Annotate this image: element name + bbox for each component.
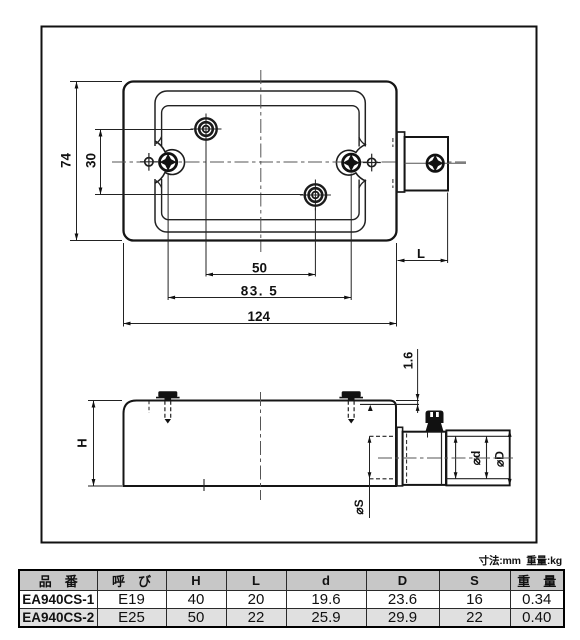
boss 1 (upper left threaded boss) [191, 114, 222, 145]
box body (side view) [124, 401, 397, 487]
svg-text:H: H [75, 438, 90, 447]
inner gasket outline (top view) [162, 106, 360, 220]
hidden tab line left (side view) [148, 401, 150, 413]
lid screw right (side view) [339, 391, 363, 423]
dimension 50 (boss spacing, horizontal) [206, 142, 315, 277]
dimension 74 (overall height, left) [59, 82, 123, 241]
horizontal centerline (top view) [112, 161, 466, 163]
svg-text:50: 50 [252, 260, 267, 275]
svg-text:⌀S: ⌀S [352, 499, 366, 514]
sleeve bore lines [446, 436, 509, 478]
connector main cylinder (side view) [403, 431, 447, 485]
dimension D (sleeve OD) arrows on right edge [493, 430, 512, 485]
lid bottom edge line (side view) [360, 404, 419, 411]
connector flange (side view) [397, 427, 403, 486]
dimension d (bore dia) [469, 436, 488, 478]
dimension 83.5 (side screw spacing) [168, 173, 351, 300]
units note [479, 553, 562, 568]
dimension S (hole dia) [352, 436, 371, 518]
vertical centerline (side view) [260, 392, 262, 500]
right notch scallop around side screw [336, 137, 367, 188]
dimension L (connector length) [398, 193, 448, 264]
box outer body (top view) [124, 82, 397, 241]
right side screw (phillips) [343, 154, 360, 171]
hidden hole rectangle (dashed, box wall) [370, 436, 398, 479]
dimension H (box height) [75, 401, 123, 487]
left notch scallop around side screw [153, 137, 185, 188]
dimension 1.6 (lid thickness) [396, 349, 420, 413]
connector screw (phillips, top view) [405, 155, 466, 171]
connector hidden edge dashes (top view) [392, 138, 394, 188]
svg-text:124: 124 [248, 309, 271, 324]
horizontal centerline (connector, side view) [378, 457, 513, 459]
vertical centerline (top view) [260, 70, 262, 252]
gland bolt on cylinder (side view) [426, 411, 444, 432]
svg-text:30: 30 [84, 153, 99, 168]
interior hidden tick (side view bottom) [203, 479, 205, 491]
svg-text:⌀D: ⌀D [493, 451, 507, 467]
sleeve inner step line with arrows [454, 436, 458, 478]
spec table [18, 569, 565, 628]
connector sleeve (side view) [446, 430, 509, 485]
svg-text:1.6: 1.6 [402, 352, 416, 369]
boss 2 (lower right threaded boss) [300, 180, 331, 211]
frame border [42, 27, 537, 543]
lid screw left (side view) [156, 391, 180, 423]
right tab small screw hole [363, 154, 381, 172]
svg-text:74: 74 [59, 153, 74, 169]
connector flange (top view) [397, 132, 405, 192]
svg-text:L: L [417, 246, 425, 261]
svg-text:83. 5: 83. 5 [241, 283, 279, 298]
connector body (top view) [405, 137, 448, 191]
left tab small screw hole [140, 153, 158, 171]
dimension 30 (boss spacing, vertical) [84, 130, 304, 195]
left side screw (phillips) [160, 154, 177, 171]
dimension 124 (overall length) [124, 243, 397, 327]
lid outline (top view) [155, 91, 365, 232]
